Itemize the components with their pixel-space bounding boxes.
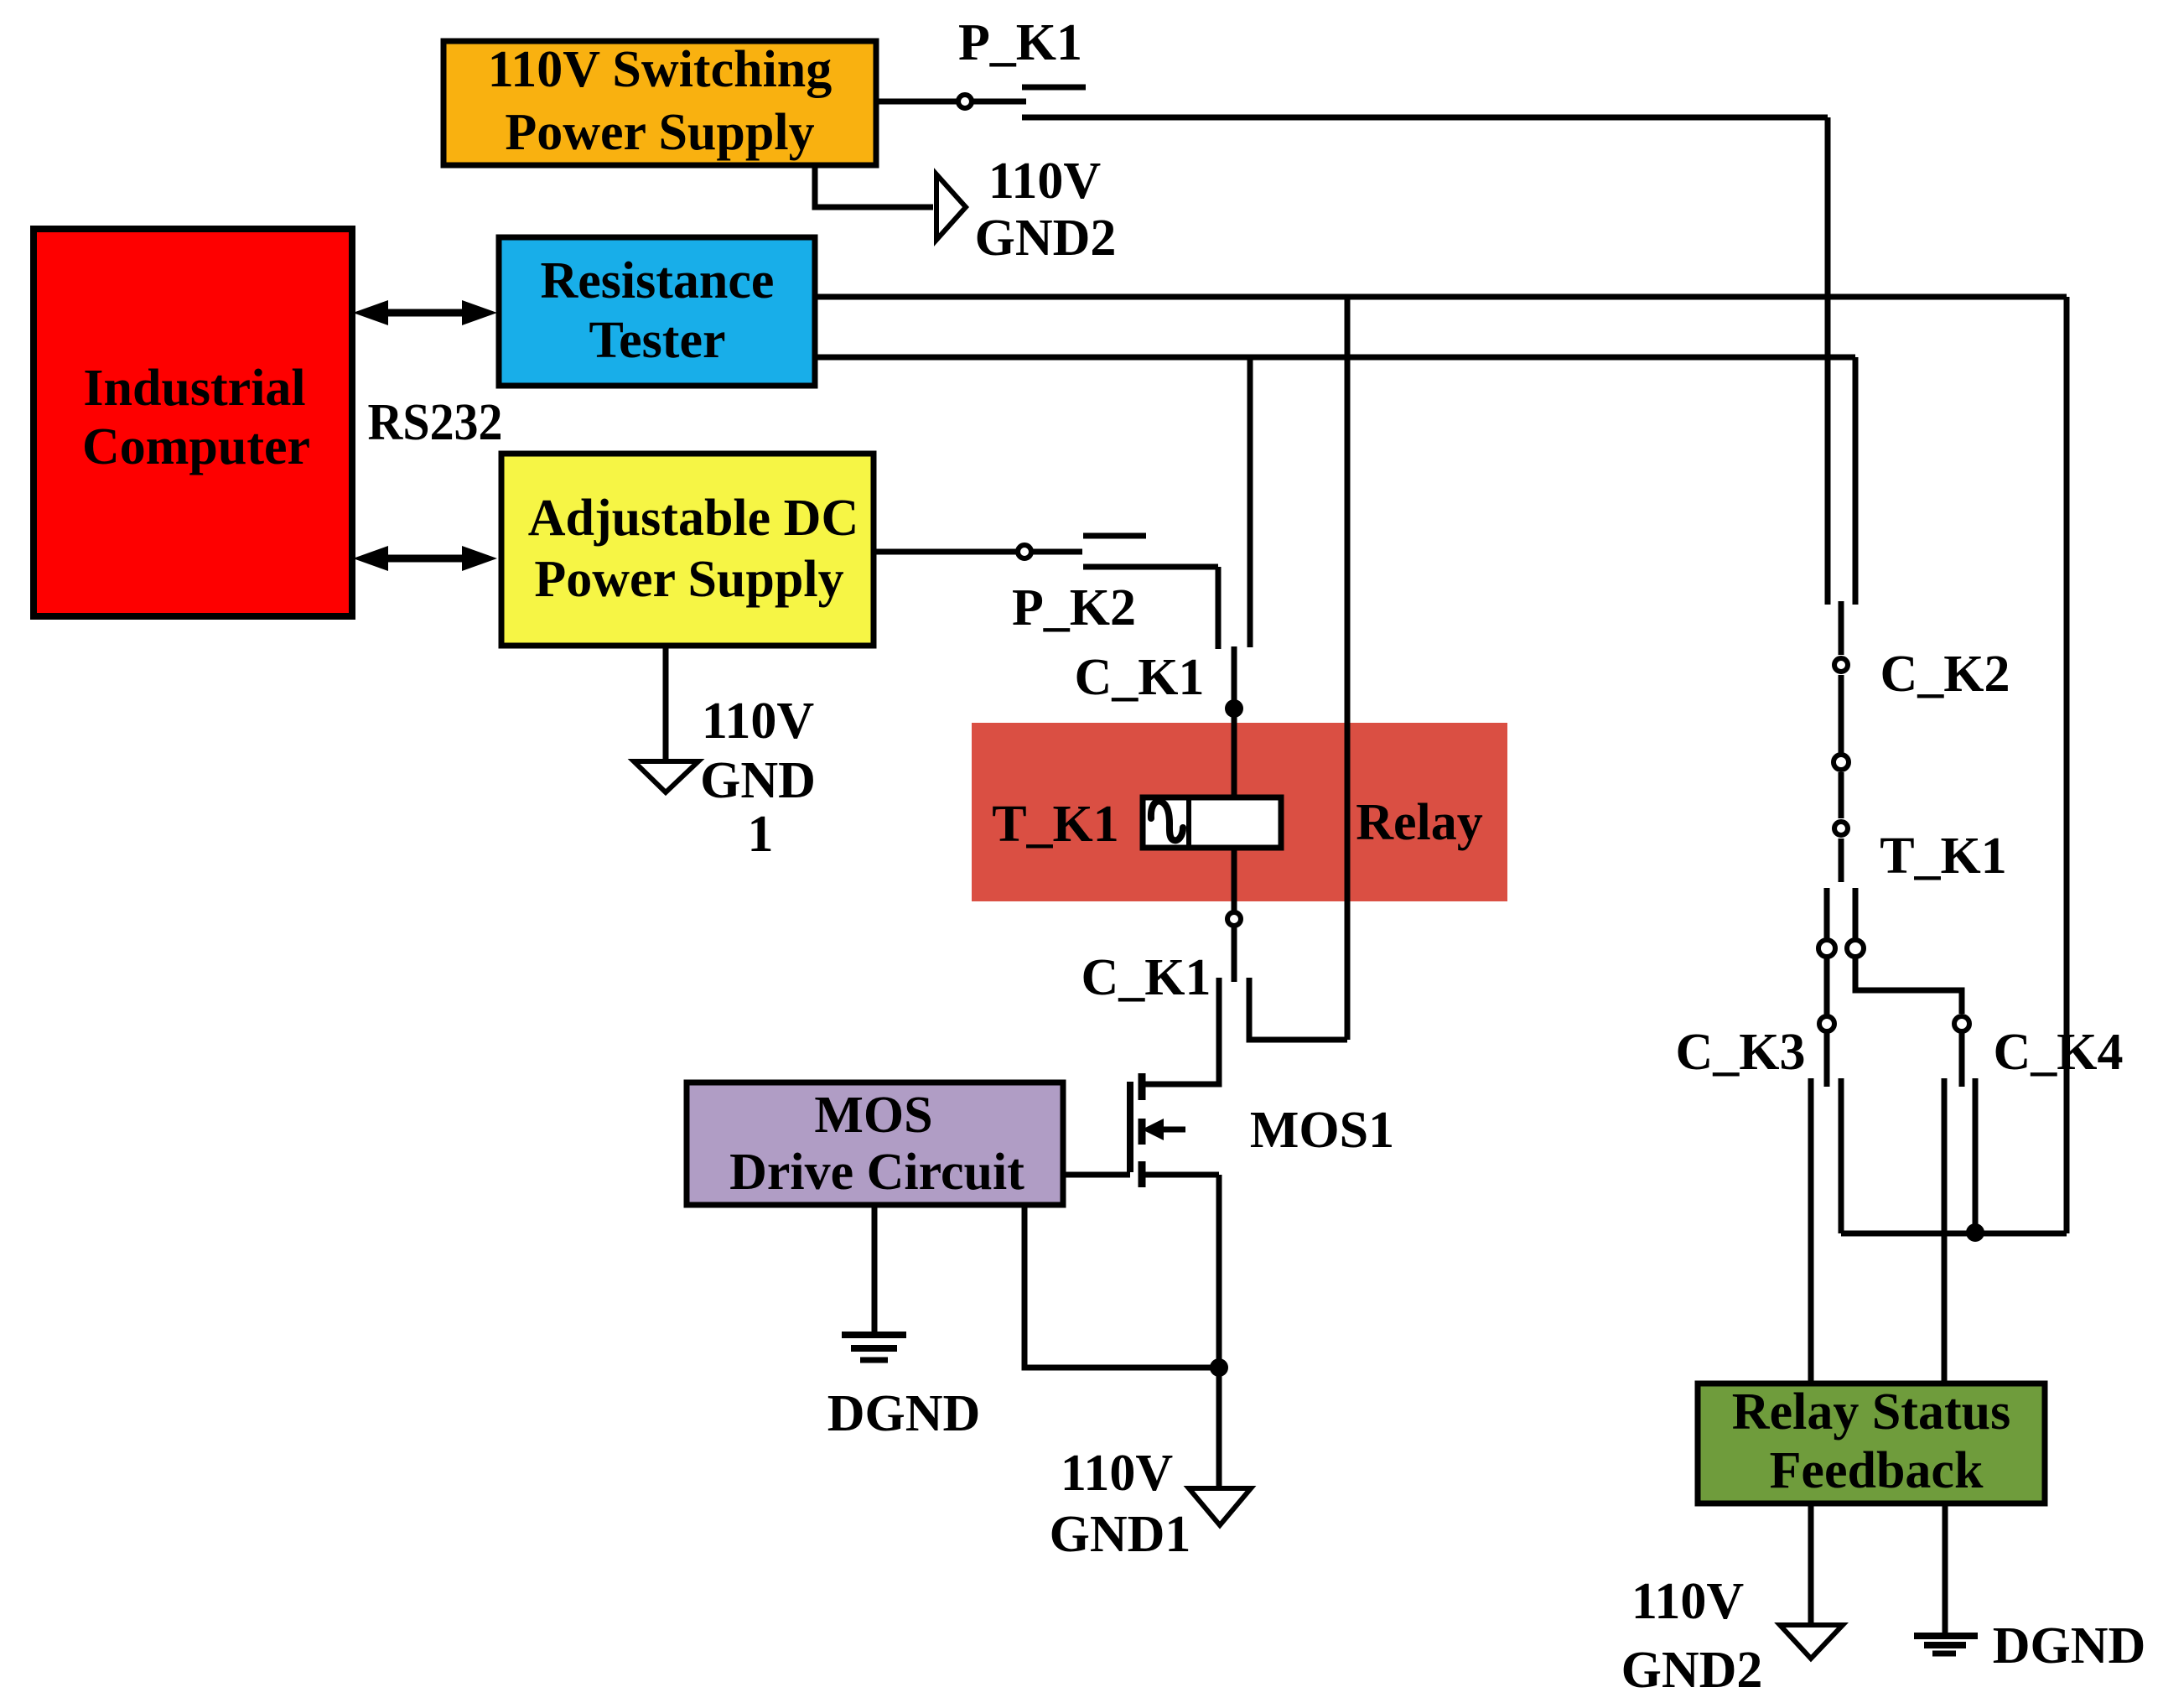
wire: pivot to P_K2 contact gap <box>1031 549 1082 555</box>
svg-text:Drive Circuit: Drive Circuit <box>729 1144 1024 1201</box>
wire: feedback to DGND <box>1943 1503 1948 1633</box>
wire: right branch over to C_K4 <box>1855 958 1962 1014</box>
wire: long vertical from tester line 1 <box>1345 297 1351 1040</box>
svg-text:Feedback: Feedback <box>1770 1442 1984 1499</box>
junction dot at coil input <box>1225 699 1243 718</box>
wire: drive circuit DGND pin <box>872 1205 878 1333</box>
svg-text:P_K2: P_K2 <box>1012 579 1136 636</box>
svg-text:DGND: DGND <box>1993 1617 2146 1674</box>
svg-text:110V: 110V <box>702 693 815 750</box>
block: Relay Status Feedback <box>1698 1384 2045 1503</box>
wire: C_K4 moving contact <box>1959 1033 1965 1087</box>
bus arrow: computer to adjustable dc power supply <box>353 546 497 571</box>
ground DGND (left) <box>842 1335 906 1360</box>
switch T_K1 pivot circle <box>1834 822 1848 835</box>
svg-text:Resistance: Resistance <box>541 252 775 309</box>
wire: gate <box>1063 1172 1130 1178</box>
junction dot at source node <box>1210 1358 1228 1377</box>
wire: dc supply ground pin <box>663 646 669 761</box>
wire: down to C_K2 right contact <box>1853 357 1859 605</box>
ground triangle 110V GND 1 <box>634 761 698 792</box>
T_K1 right lower contact <box>1853 888 1859 939</box>
wire: power supply ground pin <box>815 165 933 207</box>
svg-text:Power Supply: Power Supply <box>534 551 843 608</box>
wire: T_K1 moving contact <box>1839 838 1844 882</box>
wire: middle pivot to T_K1 pivot <box>1839 772 1844 818</box>
svg-text:110V Switching: 110V Switching <box>488 41 833 98</box>
svg-text:MOS: MOS <box>814 1087 932 1144</box>
svg-text:GND1: GND1 <box>1050 1506 1191 1563</box>
T_K1 left lower contact <box>1824 888 1830 939</box>
C_K2 pivot circle <box>1834 658 1848 672</box>
relay coil T_K1 <box>1143 797 1281 848</box>
wire: feedback to 110V GND2 <box>1808 1503 1814 1625</box>
switch P_K2 upper fixed bar <box>1083 533 1146 539</box>
wire: C_K3 right contact down <box>1839 1078 1844 1233</box>
svg-text:C_K2: C_K2 <box>1880 646 2010 703</box>
svg-text:Adjustable DC: Adjustable DC <box>528 490 858 547</box>
wire: C_K3 left contact to feedback block <box>1808 1078 1814 1384</box>
svg-text:C_K1: C_K1 <box>1075 649 1205 706</box>
wire: C_K1 lower right contact loop <box>1249 978 1347 1040</box>
svg-text:T_K1: T_K1 <box>1880 828 2007 885</box>
junction dot on return bus <box>1966 1223 1984 1242</box>
svg-text:110V: 110V <box>1061 1445 1174 1502</box>
wire: coil bottom lead <box>1232 848 1237 912</box>
svg-text:110V: 110V <box>1631 1573 1745 1630</box>
wire: power supply output to P_K1 <box>876 99 958 105</box>
svg-text:P_K1: P_K1 <box>958 14 1082 71</box>
bus arrow: computer to resistance tester <box>353 300 497 325</box>
wire: C_K1 moving contact to relay coil <box>1232 646 1237 798</box>
svg-text:Relay: Relay <box>1356 794 1483 851</box>
wire: left branch to C_K3 <box>1824 958 1830 1015</box>
T_K1 right contact circle <box>1847 940 1864 957</box>
wire: dc supply output to P_K2 <box>874 549 1017 555</box>
switch P_K2 lower bar <box>1083 564 1218 570</box>
ground triangle 110V GND1 <box>1189 1488 1251 1525</box>
wire: right-edge vertical return bus <box>2064 297 2070 1233</box>
svg-text:Industrial: Industrial <box>83 360 305 417</box>
svg-text:MOS1: MOS1 <box>1250 1102 1394 1159</box>
wire: C_K1 lower left contact to MOS1 drain <box>1142 978 1219 1084</box>
block: Adjustable DC Power Supply <box>501 454 874 646</box>
transistor MOS1 <box>1130 1073 1219 1187</box>
wire: pivot to P_K1 contact gap <box>972 99 1026 105</box>
wire: C_K3 moving contact <box>1824 1033 1830 1087</box>
svg-text:C_K1: C_K1 <box>1081 949 1211 1006</box>
svg-text:Computer: Computer <box>82 418 310 475</box>
svg-text:Tester: Tester <box>589 312 726 369</box>
wire: P_K2 down to C_K1 left contact <box>1216 567 1222 649</box>
svg-text:Relay Status: Relay Status <box>1732 1384 2010 1441</box>
wire: drive circuit feedback pin <box>1024 1205 1213 1368</box>
ground triangle 110V GND2 (bottom) <box>1780 1625 1843 1659</box>
ground DGND (right) <box>1914 1636 1978 1653</box>
switch P_K2 pivot circle <box>1018 545 1031 558</box>
wire: C_K4 left contact to feedback block <box>1942 1078 1948 1384</box>
wire: C_K1 right contact from tester line 2 <box>1247 357 1253 647</box>
block: 110V Switching Power Supply <box>443 41 876 165</box>
power flag triangle 110V GND2 (top) <box>936 174 966 240</box>
T_K1 left contact circle <box>1818 940 1835 957</box>
switch C_K2 moving contact <box>1839 601 1844 655</box>
svg-text:GND2: GND2 <box>975 210 1117 267</box>
wire: tester output 1 (top) <box>815 294 2067 300</box>
svg-text:C_K3: C_K3 <box>1676 1024 1806 1081</box>
svg-text:C_K4: C_K4 <box>1994 1024 2124 1081</box>
wire: C_K2 to middle pivot <box>1839 675 1844 753</box>
svg-text:DGND: DGND <box>827 1385 981 1442</box>
block: Industrial Computer <box>34 229 352 616</box>
wire: right column down to C_K2 left contact <box>1825 117 1831 605</box>
svg-text:T_K1: T_K1 <box>992 796 1119 853</box>
block: Relay (highlight box) <box>972 723 1507 901</box>
wire: source down <box>1216 1175 1222 1368</box>
switch C_K3 pivot circle <box>1819 1016 1834 1031</box>
svg-text:110V: 110V <box>988 153 1102 210</box>
wire: tester output 2 <box>815 355 1855 361</box>
switch C_K4 pivot circle <box>1954 1016 1969 1031</box>
svg-text:RS232: RS232 <box>368 394 503 451</box>
wire: source node to ground <box>1216 1368 1222 1488</box>
switch P_K1 pivot circle <box>958 95 972 108</box>
switch P_K1 upper fixed bar <box>1022 85 1086 91</box>
svg-text:GND: GND <box>700 752 816 809</box>
switch P_K1 lower bar / wire to right column <box>1022 115 1828 121</box>
wire: bottom return bus <box>1841 1231 2067 1237</box>
block: MOS Drive Circuit <box>687 1082 1063 1205</box>
wire: C_K4 right contact down <box>1973 1078 1979 1231</box>
switch C_K1 lower pivot circle <box>1227 912 1241 926</box>
svg-text:GND2: GND2 <box>1621 1642 1763 1699</box>
svg-text:Power Supply: Power Supply <box>505 104 814 161</box>
svg-text:1: 1 <box>748 806 774 863</box>
wire: C_K1 lower moving contact <box>1232 926 1237 982</box>
block: Resistance Tester <box>499 237 815 386</box>
middle pivot circle <box>1834 755 1849 770</box>
